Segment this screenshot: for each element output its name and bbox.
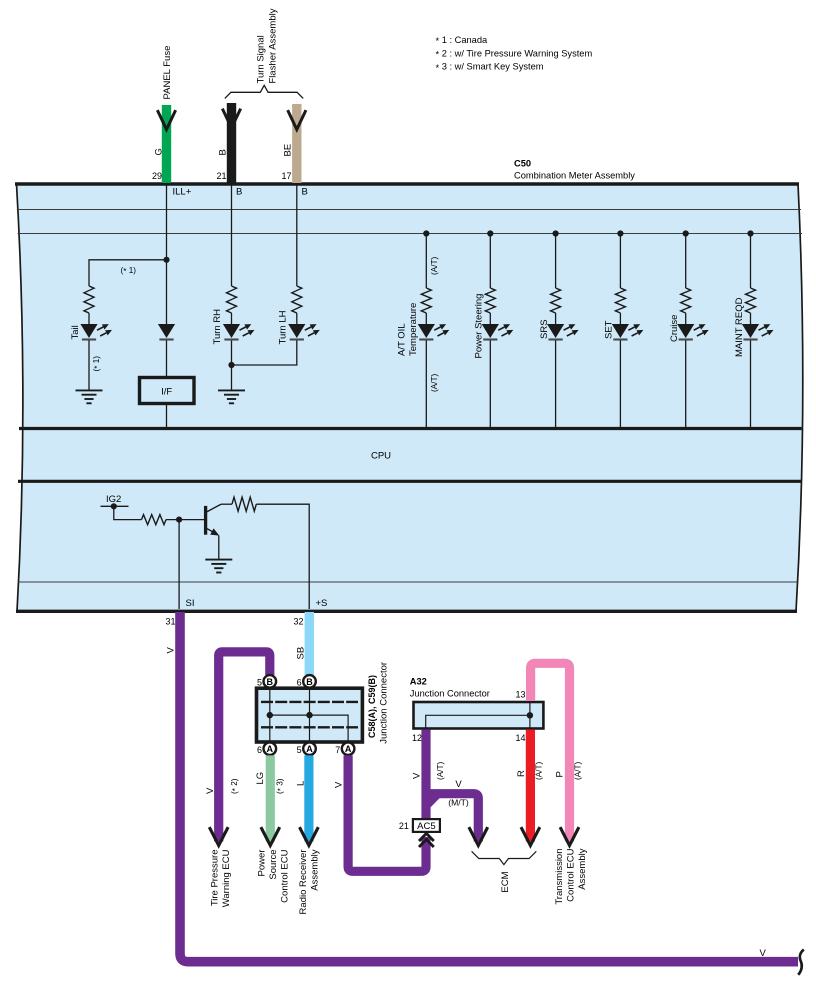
- wire Turn LH to node: [232, 341, 297, 366]
- wire: [555, 341, 557, 428]
- wire: [685, 341, 687, 428]
- wire: [231, 341, 233, 391]
- box I/F: [140, 378, 195, 404]
- wire BE from Turn Signal Flasher: [292, 104, 301, 183]
- svg-text:A/T OIL: A/T OIL: [397, 323, 408, 356]
- svg-text:ILL+: ILL+: [173, 187, 192, 198]
- wire V from SI pin 31 (long purple run): [180, 612, 798, 962]
- svg-text:I/F: I/F: [161, 386, 172, 397]
- svg-text:(A/T): (A/T): [430, 257, 439, 275]
- svg-text:12: 12: [412, 733, 422, 743]
- svg-text:PANEL Fuse: PANEL Fuse: [162, 46, 173, 100]
- wire: [489, 341, 491, 428]
- junction dot: [306, 712, 312, 718]
- svg-text:(A/T): (A/T): [430, 374, 439, 392]
- svg-text:V: V: [412, 772, 423, 779]
- ground emitter: [205, 560, 232, 573]
- svg-text:V: V: [334, 781, 345, 788]
- CPU band: [19, 427, 802, 430]
- svg-text:(* 1): (* 1): [92, 356, 102, 372]
- svg-text:LG: LG: [255, 772, 266, 785]
- node IG2: [101, 505, 129, 507]
- svg-text:(A/T): (A/T): [436, 762, 445, 780]
- svg-text:B: B: [267, 677, 274, 687]
- wire: [425, 341, 427, 428]
- node on bus for MAINT REQD lamp: [747, 230, 753, 236]
- connector C58(A),C59(B) junction connector box: [257, 688, 363, 742]
- node on bus for SET lamp: [617, 230, 623, 236]
- svg-text:Control ECU: Control ECU: [566, 848, 577, 901]
- wire LG to Power Source Control ECU: [266, 755, 275, 841]
- wire I/F to CPU: [166, 404, 168, 428]
- svg-text:V: V: [760, 948, 767, 959]
- wire Power Steering lamp column: [489, 234, 491, 289]
- internal wire pin6B-5A: [309, 688, 311, 742]
- svg-text:Power Steering: Power Steering: [474, 294, 485, 359]
- svg-text:C50: C50: [514, 159, 531, 169]
- connector A32 box: [414, 702, 544, 729]
- svg-text:7: 7: [335, 745, 340, 755]
- svg-text:6: 6: [257, 745, 262, 755]
- svg-text:L: L: [296, 781, 307, 786]
- node on ILL+: [163, 257, 169, 263]
- wire B from Turn Signal Flasher: [227, 103, 236, 183]
- svg-text:(A/T): (A/T): [535, 762, 544, 780]
- junction dot A32: [527, 712, 533, 718]
- box AC5: [413, 819, 440, 832]
- svg-text:* 3 : w/ Smart Key System: * 3 : w/ Smart Key System: [436, 62, 544, 73]
- svg-text:C58(A), C59(B): C58(A), C59(B): [367, 675, 377, 738]
- transistor Q1: [206, 504, 221, 535]
- wire L to Radio Receiver Assembly: [304, 755, 313, 841]
- node Turn RH/LH: [228, 362, 234, 368]
- svg-text:(* 3): (* 3): [276, 778, 286, 794]
- svg-text:6: 6: [297, 678, 302, 688]
- svg-text:Junction Connector: Junction Connector: [410, 689, 490, 699]
- connector C50 Combination Meter Assembly box: [17, 184, 803, 611]
- svg-text:A: A: [267, 744, 274, 754]
- svg-text:P: P: [555, 771, 566, 777]
- arrowhead on B wire: [223, 110, 240, 128]
- svg-text:14: 14: [515, 733, 525, 743]
- svg-text:Tire Pressure: Tire Pressure: [210, 850, 221, 907]
- resistor MAINT REQD lamp: [746, 288, 756, 313]
- svg-text:(A/T): (A/T): [574, 762, 583, 780]
- svg-text:(* 2): (* 2): [230, 778, 240, 794]
- wire Cruise lamp column: [685, 234, 687, 289]
- svg-text:Cruise: Cruise: [669, 315, 680, 342]
- svg-text:V: V: [205, 787, 216, 794]
- wire P loop from A32 pin13 to Transmission ECU: [531, 663, 570, 841]
- svg-text:B: B: [236, 187, 242, 198]
- internal wire A32: [426, 715, 530, 728]
- svg-text:R: R: [516, 770, 527, 777]
- arrowhead on BE wire: [288, 112, 305, 130]
- svg-text:Junction Connector: Junction Connector: [379, 662, 390, 744]
- brace Turn Signal Flasher Assembly: [225, 85, 303, 98]
- wire SRS lamp column: [555, 234, 557, 289]
- svg-text:Source: Source: [268, 850, 279, 880]
- svg-text:Turn RH: Turn RH: [212, 309, 223, 345]
- svg-text:29: 29: [152, 171, 162, 181]
- wire V from pin 7A to AC5: [348, 755, 426, 871]
- internal bus to pin7A: [270, 715, 348, 742]
- LED Turn RH: [223, 324, 255, 340]
- wire: [166, 341, 168, 378]
- C50 label: [514, 159, 635, 181]
- svg-text:B: B: [306, 677, 313, 687]
- note legend: [436, 35, 593, 73]
- ground Turn RH: [218, 390, 245, 403]
- svg-text:21: 21: [216, 171, 226, 181]
- svg-text:Tail: Tail: [70, 325, 81, 339]
- diode on ILL+ line: [158, 324, 175, 340]
- junction dot: [267, 712, 273, 718]
- label Tire Pressure Warning ECU: [210, 849, 233, 907]
- svg-text:BE: BE: [283, 144, 294, 157]
- svg-text:CPU: CPU: [371, 451, 391, 462]
- label Transmission Control ECU Assembly: [554, 848, 588, 904]
- wire V from A32 pin12 to AC5: [421, 730, 430, 820]
- wire branch to Tail: [89, 260, 167, 286]
- wire: [88, 341, 90, 391]
- svg-text:V: V: [166, 647, 177, 654]
- wire SI column: [178, 520, 180, 609]
- resistor collector: [232, 497, 256, 511]
- LED A/T OIL Temperature lamp: [418, 324, 450, 340]
- pin 5 A circle: [297, 742, 316, 755]
- node on bus for A/T OIL Temperature lamp: [423, 230, 429, 236]
- wire: [88, 313, 90, 324]
- svg-text:Flasher Assembly: Flasher Assembly: [268, 8, 279, 83]
- wire collector: [221, 503, 232, 505]
- svg-text:+S: +S: [316, 598, 328, 609]
- svg-text:Power: Power: [257, 850, 268, 877]
- wire R from A32 pin14 to ECM: [526, 730, 535, 842]
- label A/T OIL Temperature: [397, 303, 420, 356]
- svg-text:AC5: AC5: [417, 821, 435, 832]
- wire V (M/T) branch to ECM: [426, 794, 478, 842]
- wire: [619, 341, 621, 428]
- resistor SRS lamp: [551, 288, 561, 313]
- wire ILL+ column: [166, 184, 168, 324]
- svg-text:13: 13: [515, 690, 525, 700]
- pin 6 A circle: [257, 742, 276, 755]
- resistor SET lamp: [615, 288, 625, 313]
- arrowhead Tire Pressure: [210, 829, 227, 846]
- svg-text:Radio Receiver: Radio Receiver: [298, 850, 309, 915]
- LED Turn LH: [288, 324, 320, 340]
- node on bus for Cruise lamp: [683, 230, 689, 236]
- wire: [750, 341, 752, 428]
- svg-text:B: B: [218, 149, 229, 155]
- dashed internal bus lines: [261, 701, 358, 703]
- svg-text:Assembly: Assembly: [577, 848, 588, 889]
- svg-text:V: V: [455, 779, 462, 790]
- label Power Source Control ECU: [257, 849, 291, 902]
- node on bus for SRS lamp: [553, 230, 559, 236]
- svg-text:SRS: SRS: [539, 319, 550, 339]
- label Radio Receiver Assembly: [298, 849, 321, 914]
- svg-text:Control ECU: Control ECU: [280, 849, 291, 902]
- internal wire pin5B-6A: [269, 688, 271, 742]
- svg-text:(* 1): (* 1): [121, 266, 137, 276]
- svg-text:MAINT REQD: MAINT REQD: [734, 297, 745, 357]
- svg-text:SET: SET: [604, 320, 615, 339]
- fillet at M/T branch junction: [425, 794, 440, 807]
- svg-text:21: 21: [399, 821, 409, 831]
- svg-text:Turn Signal: Turn Signal: [256, 35, 267, 83]
- svg-text:32: 32: [293, 617, 303, 627]
- wire Turn RH column: [231, 184, 233, 286]
- LED Power Steering lamp: [482, 324, 514, 340]
- resistor Power Steering lamp: [485, 288, 495, 313]
- svg-text:Assembly: Assembly: [310, 849, 321, 890]
- inner divider above SI row: [18, 581, 798, 583]
- LED SRS lamp: [547, 324, 579, 340]
- resistor Turn LH: [292, 286, 302, 313]
- wire SET lamp column: [619, 234, 621, 289]
- wire Turn LH column: [296, 184, 298, 286]
- svg-text:SI: SI: [186, 598, 195, 609]
- LED Tail: [80, 324, 112, 340]
- LED Cruise lamp: [677, 324, 709, 340]
- continuation hook at right edge: [798, 950, 804, 975]
- wire emitter: [218, 536, 220, 560]
- wire collector to +S: [256, 504, 309, 609]
- pin 7 A circle: [335, 742, 354, 755]
- svg-text:Turn LH: Turn LH: [278, 310, 289, 344]
- svg-text:G: G: [154, 148, 165, 155]
- wire MAINT REQD lamp column: [750, 234, 752, 289]
- resistor A/T OIL Temperature lamp: [421, 288, 431, 313]
- resistor base: [142, 515, 167, 525]
- wire IG2 to base resistor: [114, 506, 142, 519]
- svg-text:(M/T): (M/T): [448, 798, 469, 808]
- wire: [166, 519, 206, 521]
- svg-text:IG2: IG2: [106, 494, 121, 505]
- svg-text:31: 31: [165, 617, 175, 627]
- svg-text:SB: SB: [296, 647, 307, 660]
- svg-text:17: 17: [281, 171, 291, 181]
- resistor Tail: [84, 286, 94, 313]
- brace ECM: [472, 851, 537, 864]
- svg-text:ECM: ECM: [500, 871, 511, 892]
- svg-text:Combination Meter Assembly: Combination Meter Assembly: [514, 171, 635, 181]
- label C58(A), C59(B) Junction Connector: [367, 662, 390, 744]
- arrowhead on G wire: [158, 112, 175, 130]
- pin 5 B circle: [257, 675, 276, 688]
- svg-text:5: 5: [257, 678, 262, 688]
- LED SET lamp: [612, 324, 644, 340]
- svg-text:5: 5: [297, 745, 302, 755]
- ground Tail: [76, 390, 103, 403]
- wire V to Tire Pressure Warning ECU: [219, 652, 270, 842]
- node on bus for Power Steering lamp: [487, 230, 493, 236]
- wire SB from +S pin 32: [305, 612, 314, 675]
- svg-text:* 1 : Canada: * 1 : Canada: [436, 35, 489, 46]
- continuation chevron AC5: [419, 833, 434, 847]
- svg-text:A: A: [306, 744, 313, 754]
- inner divider line row1: [17, 209, 801, 211]
- connector A32 label: [410, 677, 490, 699]
- lamp bus line: [18, 233, 803, 235]
- svg-text:B: B: [302, 187, 308, 198]
- wire A/T OIL Temperature lamp column: [425, 234, 427, 289]
- pin 6 B circle: [297, 675, 316, 688]
- node base/SI: [176, 517, 182, 523]
- svg-text:Temperature: Temperature: [408, 303, 419, 356]
- LED MAINT REQD lamp: [742, 324, 774, 340]
- svg-text:Warning ECU: Warning ECU: [221, 849, 232, 907]
- svg-text:Transmission: Transmission: [554, 849, 565, 905]
- svg-text:A: A: [345, 744, 352, 754]
- svg-text:* 2 : w/ Tire Pressure Warning: * 2 : w/ Tire Pressure Warning System: [436, 48, 593, 59]
- label Turn Signal Flasher Assembly: [256, 8, 279, 83]
- wire G from PANEL Fuse: [162, 105, 171, 183]
- resistor Cruise lamp: [681, 288, 691, 313]
- resistor Turn RH: [227, 286, 237, 313]
- svg-text:A32: A32: [410, 677, 427, 687]
